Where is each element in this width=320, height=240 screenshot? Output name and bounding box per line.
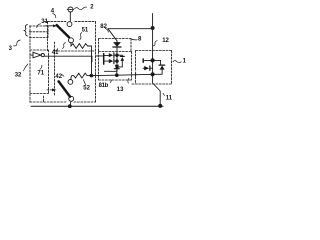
svg-text:51: 51	[82, 28, 89, 34]
svg-text:8: 8	[138, 36, 142, 42]
svg-text:81b: 81b	[99, 83, 109, 89]
svg-text:71: 71	[37, 70, 44, 76]
svg-text:13: 13	[117, 87, 124, 93]
svg-text:41: 41	[52, 50, 59, 56]
svg-text:12: 12	[162, 38, 169, 44]
svg-text:31: 31	[41, 19, 48, 25]
svg-text:11: 11	[166, 95, 173, 101]
svg-text:52: 52	[83, 86, 90, 92]
svg-text:3: 3	[9, 46, 13, 52]
svg-text:82: 82	[100, 24, 107, 30]
svg-text:42: 42	[55, 74, 62, 80]
svg-text:4: 4	[51, 8, 55, 14]
svg-text:2: 2	[90, 5, 94, 11]
svg-text:1: 1	[183, 58, 187, 64]
svg-text:32: 32	[15, 72, 22, 78]
